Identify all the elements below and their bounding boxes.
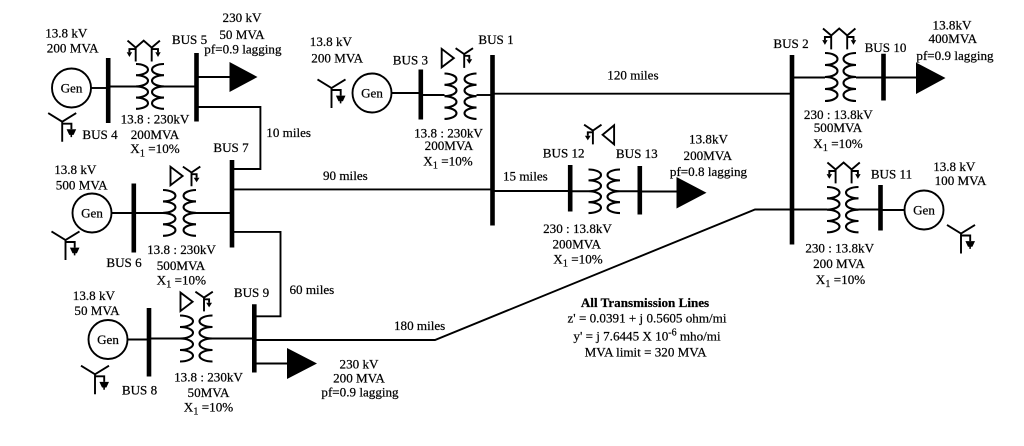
wire T7 to BUS 13 (620, 190, 639, 192)
wire T4 to BUS 1 (477, 94, 492, 96)
svg-text:BUS 11: BUS 11 (871, 167, 912, 182)
svg-text:60 miles: 60 miles (290, 282, 335, 297)
delta symbol above T7 (603, 125, 615, 144)
grounded wye of G3 (81, 366, 109, 395)
svg-text:180 miles: 180 miles (394, 318, 445, 333)
svg-text:120 miles: 120 miles (607, 68, 658, 83)
grounded wye of G5 (947, 225, 975, 254)
grounded wye symbol above T4 (456, 48, 473, 68)
grounded wye symbol above T2 (183, 167, 200, 187)
load arrow at BUS 5 (230, 62, 258, 92)
svg-text:BUS 1: BUS 1 (478, 32, 513, 47)
bus BUS 6 (132, 184, 137, 253)
svg-text:13.8 : 230kV: 13.8 : 230kV (121, 112, 190, 127)
svg-text:BUS 2: BUS 2 (773, 36, 808, 51)
wire G4 to BUS 3 (392, 92, 420, 94)
svg-text:500MVA: 500MVA (814, 120, 863, 135)
svg-text:50 MVA: 50 MVA (74, 303, 120, 318)
svg-text:200MVA: 200MVA (684, 148, 733, 163)
generator G1 (52, 69, 91, 108)
delta symbol above T2 (171, 167, 183, 185)
svg-text:10 miles: 10 miles (266, 125, 311, 140)
svg-text:BUS 12: BUS 12 (543, 146, 585, 161)
svg-text:Gen: Gen (61, 81, 83, 96)
svg-text:13.8 kV: 13.8 kV (54, 162, 97, 177)
svg-text:230 : 13.8kV: 230 : 13.8kV (543, 221, 612, 236)
svg-text:500 MVA: 500 MVA (56, 177, 108, 192)
wire T1 to BUS 5 (164, 86, 195, 88)
transformer T1 windings (136, 64, 148, 109)
svg-text:200MVA: 200MVA (131, 127, 180, 142)
bus BUS 9 (252, 304, 257, 372)
svg-text:200 MVA: 200 MVA (47, 40, 99, 55)
svg-text:BUS 9: BUS 9 (234, 285, 270, 300)
grounded wye symbol above T3 (195, 292, 212, 312)
svg-text:50 MVA: 50 MVA (219, 27, 265, 42)
wire BUS 12 to T7 (570, 190, 588, 192)
generator G4 (353, 74, 392, 113)
generator G2 (73, 194, 112, 233)
svg-text:Gen: Gen (913, 203, 935, 218)
wire T6 to BUS 11 (859, 209, 880, 211)
wire G3 to BUS 8 (128, 339, 149, 341)
svg-text:BUS 8: BUS 8 (122, 382, 158, 397)
svg-text:13.8 kV: 13.8 kV (73, 288, 116, 303)
wye-wye symbols above T5 (822, 29, 856, 50)
svg-text:z' = 0.0391 + j 0.5605 ohm/m: z' = 0.0391 + j 0.5605 ohm/mi (568, 311, 727, 326)
bus BUS 4 (106, 58, 111, 123)
svg-text:200MVA: 200MVA (425, 138, 474, 153)
bus BUS 13 (637, 166, 642, 215)
grounded wye of G4 (318, 79, 346, 108)
svg-text:230 : 13.8kV: 230 : 13.8kV (805, 241, 874, 256)
svg-text:BUS 5: BUS 5 (172, 32, 208, 47)
svg-text:90 miles: 90 miles (323, 168, 368, 183)
svg-text:BUS 10: BUS 10 (865, 40, 907, 55)
wire G2 to BUS 6 (112, 212, 133, 214)
svg-text:100 MVA: 100 MVA (935, 173, 987, 188)
svg-text:13.8 : 230kV: 13.8 : 230kV (147, 242, 216, 257)
transmission line BUS 5 to BUS 7, 10 miles (197, 107, 261, 169)
wire T5 to BUS 10 (856, 77, 883, 79)
bus BUS 2 (790, 55, 795, 245)
svg-text:BUS 4: BUS 4 (82, 127, 118, 142)
transformer T5 windings (825, 53, 838, 101)
wire BUS 9 to load arrow (254, 363, 287, 365)
svg-text:pf=0.9 lagging: pf=0.9 lagging (321, 384, 399, 399)
wire BUS 8 to T3 (149, 338, 180, 340)
svg-text:pf=0.9 lagging: pf=0.9 lagging (204, 41, 282, 56)
svg-text:Gen: Gen (361, 86, 383, 101)
svg-text:200MVA: 200MVA (552, 236, 601, 251)
load arrow at BUS 10 (916, 63, 946, 95)
bus BUS 5 (194, 53, 199, 122)
transformer T6 windings (827, 187, 840, 232)
wye-wye symbols above T1 (127, 41, 161, 62)
wire BUS 5 to load arrow (197, 76, 230, 78)
svg-text:y' = j 7.6445 X 10-6 mho/mi: y' = j 7.6445 X 10-6 mho/mi (573, 328, 721, 344)
bus BUS 3 (418, 70, 423, 120)
svg-text:500MVA: 500MVA (157, 258, 206, 273)
wire T3 to BUS 9 (213, 338, 254, 340)
svg-text:200 MVA: 200 MVA (333, 370, 385, 385)
wire BUS 13 to load arrow (640, 191, 677, 193)
transmission line BUS 9 to BUS 2, 180 miles (256, 210, 791, 341)
grounded wye symbol above T7 (584, 125, 601, 145)
generator G5 (905, 191, 944, 230)
svg-text:BUS 3: BUS 3 (393, 52, 429, 67)
wire BUS 2 to T6 (792, 209, 827, 211)
svg-text:200 MVA: 200 MVA (311, 50, 363, 65)
svg-text:pf=0.9 lagging: pf=0.9 lagging (916, 48, 994, 63)
transformer T3 windings (180, 316, 193, 362)
bus BUS 7 (230, 160, 235, 248)
wire BUS 2 to T5 (792, 77, 825, 79)
svg-text:50MVA: 50MVA (188, 385, 231, 400)
transmission line BUS 7 to BUS 9, 60 miles (232, 232, 281, 316)
delta symbol above T3 (181, 293, 193, 311)
wire BUS 6 to T2 (134, 212, 163, 214)
grounded wye of G1 (48, 113, 76, 142)
svg-text:230 kV: 230 kV (340, 356, 379, 371)
transformer T2 windings (163, 190, 175, 236)
svg-text:13.8 kV: 13.8 kV (310, 34, 353, 49)
svg-text:400MVA: 400MVA (929, 31, 978, 46)
load arrow at BUS 9 (287, 348, 317, 379)
bus BUS 11 (878, 185, 883, 231)
svg-text:200 MVA: 200 MVA (813, 256, 865, 271)
wire BUS 11 to G5 (881, 209, 905, 211)
svg-text:All Transmission Lines: All Transmission Lines (581, 295, 709, 310)
bus BUS 1 (490, 55, 495, 226)
wire T2 to BUS 7 (196, 212, 231, 214)
svg-text:pf=0.8 lagging: pf=0.8 lagging (670, 164, 748, 179)
svg-text:13.8 kV: 13.8 kV (933, 159, 976, 174)
svg-text:230 kV: 230 kV (223, 10, 262, 25)
bus BUS 12 (568, 165, 573, 212)
transmission line BUS 7 to BUS 1, 90 miles (232, 188, 493, 190)
wye-wye symbols above T6 (827, 163, 861, 184)
svg-text:13.8 : 230kV: 13.8 : 230kV (174, 370, 243, 385)
svg-text:MVA limit = 320 MVA: MVA limit = 320 MVA (585, 345, 707, 360)
transformer T7 windings (589, 170, 602, 214)
svg-text:BUS 13: BUS 13 (616, 146, 658, 161)
bus BUS 8 (147, 308, 152, 377)
transformer T4 windings (445, 74, 457, 119)
wire BUS 10 to load arrow (884, 77, 917, 79)
svg-text:15 miles: 15 miles (503, 168, 548, 183)
transmission line BUS 1 to BUS 2, 120 miles (493, 93, 792, 95)
svg-text:Gen: Gen (81, 206, 103, 221)
wire BUS 3 to T4 (421, 94, 445, 96)
svg-text:13.8kV: 13.8kV (689, 132, 728, 147)
svg-text:13.8 kV: 13.8 kV (45, 26, 88, 41)
transmission line BUS 1 to BUS 12, 15 miles (493, 190, 570, 192)
svg-text:BUS 7: BUS 7 (213, 140, 249, 155)
bus BUS 10 (881, 54, 886, 101)
load arrow at BUS 13 (677, 177, 707, 209)
svg-text:Gen: Gen (97, 332, 119, 347)
wire BUS 4 to T1 (108, 86, 136, 88)
wire G1 to BUS 4 (91, 87, 107, 89)
svg-text:BUS 6: BUS 6 (106, 255, 142, 270)
generator G3 (89, 320, 128, 359)
delta symbol above T4 (442, 49, 454, 67)
grounded wye of G2 (52, 231, 80, 260)
